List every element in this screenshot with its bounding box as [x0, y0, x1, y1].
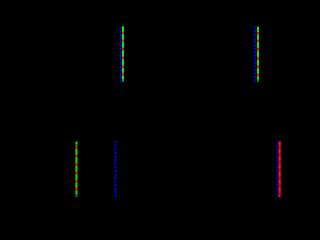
wire: bottom-left green dim tail — [75, 194, 77, 197]
wire: bottom-right red bright dashes — [279, 142, 281, 198]
wire: top-right red dash flecks — [257, 32, 259, 76]
wire: bottom-left red dash flecks — [75, 147, 77, 191]
wire: top-right green dashed vline — [257, 27, 259, 80]
wire: bottom-left green dim patch — [75, 144, 77, 146]
wire: top-right green dim tail — [257, 80, 259, 82]
wire: top-left green dim tail — [122, 80, 124, 82]
wire: bottom-right blue dotted vline — [277, 142, 279, 197]
wire: bottom-middle blue dotted vline — [114, 141, 116, 197]
wire: top-right blue dotted vline — [254, 27, 256, 82]
wire: top-left blue dotted vline — [120, 27, 122, 82]
wire: bottom-left green dashed vline — [75, 142, 77, 195]
wire: top-left red dash flecks — [122, 32, 124, 76]
wire: bottom-right red solid vline — [279, 142, 281, 198]
wire: top-left green dashed vline — [122, 26, 124, 79]
